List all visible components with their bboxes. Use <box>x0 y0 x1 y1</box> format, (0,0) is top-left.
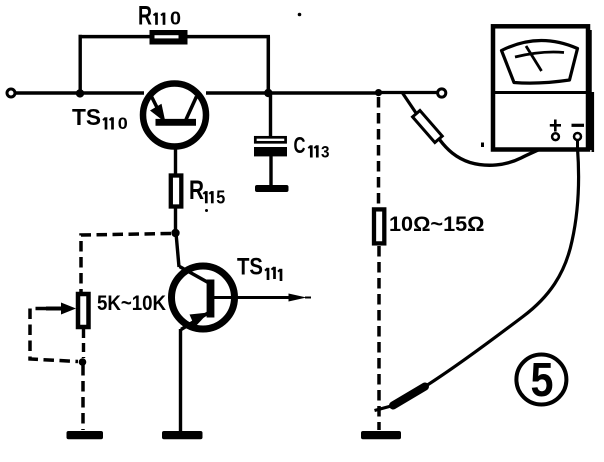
label 10ohm-15ohm <box>389 213 485 236</box>
svg-text:5K~10K: 5K~10K <box>97 291 166 315</box>
label R115 <box>189 175 225 207</box>
wire (dashed): pot bottom to node E <box>82 329 85 358</box>
svg-text:0: 0 <box>170 9 181 29</box>
probe body (minus lead) <box>375 387 426 411</box>
wire: TS110 to node B to node C <box>206 91 380 95</box>
svg-text:TS: TS <box>72 104 101 130</box>
label R110 <box>138 0 181 30</box>
label C113 <box>294 132 330 162</box>
ground (TS111 emitter) <box>162 431 203 439</box>
output terminal <box>438 89 446 97</box>
wire: node C to meter plus probe <box>403 93 417 113</box>
svg-text:5: 5 <box>531 354 554 407</box>
meter minus terminal <box>572 125 585 140</box>
capacitor C113 <box>254 137 287 156</box>
node D (junction R115/pot link/TS111) <box>171 229 179 237</box>
svg-text:R: R <box>189 175 204 205</box>
wire: TS110 base down to R115 <box>174 146 177 175</box>
ground (load resistor) <box>361 431 401 439</box>
wire (dashed): wiper loop left and down to node E <box>30 309 78 362</box>
svg-text:C: C <box>294 132 306 158</box>
svg-text:TS: TS <box>237 254 263 281</box>
node E (junction pot/wiper/ground) <box>79 358 87 366</box>
resistor R115 <box>171 176 182 207</box>
svg-text:3: 3 <box>321 143 330 162</box>
probe body (plus lead) <box>413 110 443 142</box>
node C (junction main wire / meter probe / load) <box>375 89 382 96</box>
meter M1 (multimeter case) <box>493 26 593 152</box>
wire: minus lead big curve to probe <box>425 148 579 387</box>
wire: node C to output terminal <box>378 91 437 94</box>
label TS111 <box>237 254 281 282</box>
resistor 10ohm-15ohm <box>374 209 384 243</box>
transistor TS110 <box>143 84 206 147</box>
wire: R110 to top right corner <box>186 35 270 39</box>
wire: R115 to node D <box>174 208 177 235</box>
meter plus terminal <box>550 120 561 141</box>
resistor R110 <box>150 30 188 45</box>
wire: minus terminal down out of case <box>576 140 579 152</box>
node A (junction input/R110 feedback) <box>76 89 84 97</box>
stray print dots <box>205 13 484 212</box>
wire (dashed): node C down to load resistor <box>377 97 381 207</box>
svg-text:5: 5 <box>216 187 225 207</box>
figure number 5 <box>516 354 566 407</box>
transistor TS111 <box>172 266 235 330</box>
wire: TS111 base output with arrow <box>214 294 311 302</box>
wire: node D to TS111 collector <box>176 233 179 267</box>
ground (potentiometer) <box>67 431 104 439</box>
potentiometer 5K-10K <box>78 294 89 327</box>
wire (dashed): load resistor down to ground <box>377 246 381 430</box>
potentiometer wiper arrow <box>46 303 76 315</box>
label 5K-10K <box>97 291 166 315</box>
wire (dashed): node E to ground <box>81 365 85 430</box>
wire (dashed): node D to potentiometer top <box>81 234 171 293</box>
wire: probe to meter plus terminal <box>440 140 553 166</box>
meter face <box>502 40 578 83</box>
wire: top right corner down to node B <box>267 37 271 93</box>
ground (C113) <box>255 185 289 192</box>
wire: node A up to top rail <box>78 35 81 95</box>
input terminal <box>7 89 15 97</box>
wire: input terminal to TS110 <box>16 91 145 95</box>
wire: top rail left to R110 <box>79 35 152 39</box>
label TS110 <box>72 104 128 133</box>
svg-text:0: 0 <box>118 114 128 133</box>
node B (junction main wire / R110 / C113) <box>264 89 272 97</box>
wire: C113 to ground <box>269 156 272 187</box>
svg-text:10Ω~15Ω: 10Ω~15Ω <box>389 213 485 236</box>
wire: TS111 emitter to ground <box>179 329 182 432</box>
wire: node B down to C113 <box>269 93 272 137</box>
svg-text:R: R <box>138 0 152 30</box>
